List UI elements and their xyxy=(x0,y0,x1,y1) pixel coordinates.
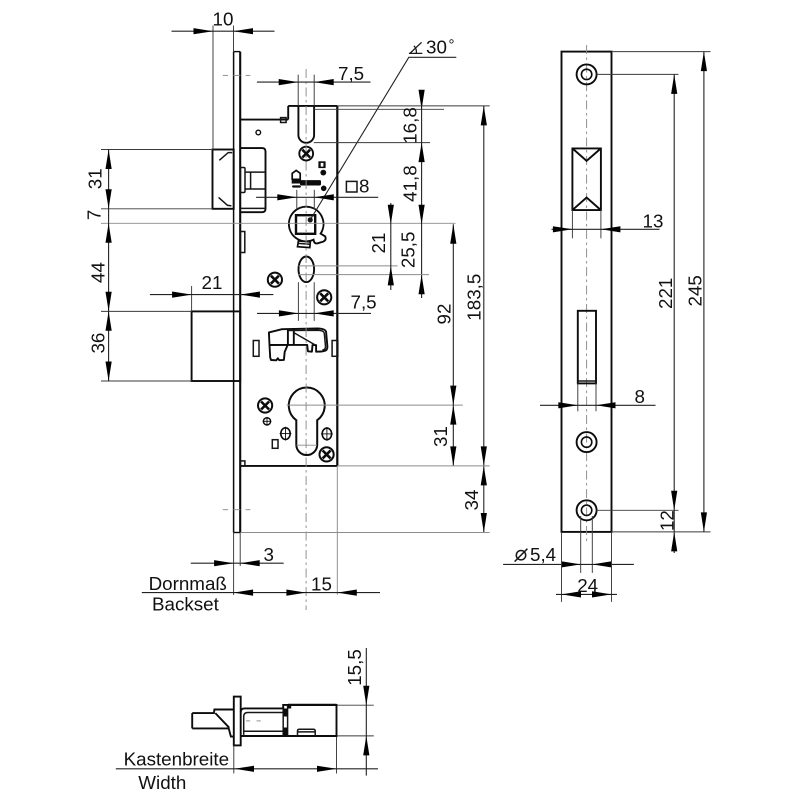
middle countersunk screw hole xyxy=(577,432,597,452)
svg-text:15: 15 xyxy=(311,573,332,594)
svg-text:°: ° xyxy=(449,37,455,54)
follower horizontal centerline xyxy=(101,222,456,224)
svg-text:31: 31 xyxy=(430,426,451,447)
svg-text:5,4: 5,4 xyxy=(530,544,556,565)
slot in case left wall xyxy=(240,232,244,253)
small clip on case bottom (top view) xyxy=(298,729,316,736)
svg-text:Kastenbreite: Kastenbreite xyxy=(124,749,229,770)
dimension 221 (screw distance) xyxy=(597,74,679,553)
latch bolt top view with bevel xyxy=(192,710,234,737)
svg-text:44: 44 xyxy=(87,262,108,283)
dimension 21 (deadbolt throw, left) xyxy=(150,272,274,311)
small ring detail left of channel xyxy=(256,130,261,135)
euro profile cylinder hole xyxy=(289,388,325,456)
svg-text:41,8: 41,8 xyxy=(400,165,421,202)
oval cross hole left of cylinder xyxy=(280,427,292,441)
spring stop pin (mushroom shape) xyxy=(292,170,301,187)
small tab on case bottom-left edge xyxy=(240,461,245,466)
dimension 7,5 (oval width) xyxy=(257,282,377,321)
svg-text:21: 21 xyxy=(368,233,389,254)
svg-text:245: 245 xyxy=(685,275,706,306)
dimension 24 (faceplate width) xyxy=(556,532,617,602)
dimension 183,5 xyxy=(337,106,489,533)
lock case outline xyxy=(240,106,337,466)
dimension 3 (faceplate thickness) xyxy=(191,533,284,596)
svg-text:Dornmaß: Dornmaß xyxy=(149,573,227,594)
dimension 16,8 (right of case top) xyxy=(314,90,444,298)
svg-text:12: 12 xyxy=(657,510,678,531)
svg-text:34: 34 xyxy=(461,490,482,511)
svg-text:13: 13 xyxy=(643,210,664,231)
oval hole below follower xyxy=(299,257,315,283)
lower screw left (circle with cross) xyxy=(258,398,272,412)
latch bolt tail inside case xyxy=(240,148,265,212)
lower screw right (circle with cross) xyxy=(320,447,334,461)
svg-text:16,8: 16,8 xyxy=(400,107,421,144)
dimension 25,5 xyxy=(299,232,430,295)
top countersunk screw hole xyxy=(577,64,597,84)
fixing screw (circle with cross) below latch channel xyxy=(299,147,313,161)
svg-text:92: 92 xyxy=(433,304,454,325)
faceplate bar (edge-on) xyxy=(234,697,241,746)
svg-text:7: 7 xyxy=(84,210,105,220)
deadbolt slot in faceplate xyxy=(578,311,596,384)
svg-text:36: 36 xyxy=(87,333,108,354)
svg-text:183,5: 183,5 xyxy=(463,274,484,321)
small pin dot right of spring bar xyxy=(321,186,327,192)
svg-text:3: 3 xyxy=(264,544,274,565)
backset dimension with labels Dornmass / Backset and 15 xyxy=(142,466,380,615)
svg-text:31: 31 xyxy=(84,168,105,189)
angle callout 30 degrees with leader to spindle hole xyxy=(308,36,457,222)
dimension 245 (faceplate length) xyxy=(612,52,711,532)
square spindle hole 8mm xyxy=(296,215,315,234)
svg-text:Backset: Backset xyxy=(152,594,220,615)
svg-text:Width: Width xyxy=(138,772,186,793)
left dimension stack 31 / 7 / 44 / 36 xyxy=(84,150,213,382)
guide slot left of cam xyxy=(253,341,259,357)
divider with screw blocks xyxy=(283,705,291,736)
vertical centerline of lock (dash-dot) xyxy=(305,69,307,610)
dimension 34 (case bottom to faceplate bottom) xyxy=(240,466,489,533)
screw-hole centerline marks on faceplate (top) xyxy=(223,74,251,76)
chord line in cylinder slot xyxy=(297,444,318,446)
dimension diameter 5,4 (screw hole) xyxy=(503,516,634,573)
svg-text:8: 8 xyxy=(635,386,645,407)
svg-text:10: 10 xyxy=(213,9,234,30)
svg-text:15,5: 15,5 xyxy=(344,649,365,686)
label square 8 with dimension of spindle square xyxy=(256,176,378,210)
Kastenbreite / Width dimension xyxy=(116,737,378,793)
svg-text:25,5: 25,5 xyxy=(398,232,419,269)
short centerline dash in top view xyxy=(246,720,250,722)
dimension 21 (right, follower to oval) xyxy=(299,203,398,290)
latch opening with guide prongs xyxy=(572,148,601,210)
inner cover plate with rounded corner xyxy=(244,713,284,735)
dimension 92 xyxy=(433,224,456,405)
lock case top view outline xyxy=(241,705,337,736)
dimension 41,8 xyxy=(400,165,425,224)
svg-text:8: 8 xyxy=(359,176,369,197)
svg-text:221: 221 xyxy=(655,278,676,309)
bottom countersunk screw hole xyxy=(577,500,597,520)
follower (handle nut) circle with cam bump lower right xyxy=(289,207,326,244)
dimension 10 (top left) xyxy=(172,9,275,150)
svg-text:7,5: 7,5 xyxy=(351,292,377,313)
deadbolt drive cam (crown shaped part inside case) xyxy=(269,328,328,360)
oval cross hole right of cylinder xyxy=(321,427,333,441)
faceplate centerline xyxy=(586,45,588,541)
dimension 15,5 (case height, top view) xyxy=(338,648,374,776)
middle screw right (circle with cross) xyxy=(317,290,331,304)
deadbolt head (protruding left of faceplate) xyxy=(192,311,241,381)
dimension 7,5 (top) xyxy=(257,63,371,106)
small rectangular hole below left oval xyxy=(272,440,278,449)
latch bolt head (protruding left of faceplate) xyxy=(213,150,234,209)
faceplate side view (left edge) xyxy=(234,52,241,533)
guide slot on case right wall xyxy=(332,341,338,357)
svg-text:7,5: 7,5 xyxy=(338,63,364,84)
dimension 8 (deadbolt slot width) xyxy=(540,383,656,411)
svg-text:30: 30 xyxy=(426,36,447,57)
small tab on case top-left edge xyxy=(281,118,287,123)
small cross-hole below lower-left screw xyxy=(263,417,272,426)
small pin dot below square xyxy=(320,170,326,176)
dimension 31 (cylinder to case bottom) xyxy=(337,405,489,466)
cylinder horizontal centerline xyxy=(287,404,463,406)
dimension 13 (latch opening width) xyxy=(552,210,664,238)
screw-hole centerline marks on faceplate (bottom) xyxy=(223,509,251,511)
spring bar (solid black) xyxy=(300,180,321,185)
svg-text:24: 24 xyxy=(577,575,598,596)
svg-text:21: 21 xyxy=(202,272,223,293)
middle screw left (circle with cross) xyxy=(268,273,282,287)
faceplate outline xyxy=(562,52,612,532)
latch guide channel at case top xyxy=(298,106,314,143)
small square with slot detail xyxy=(318,161,325,168)
follower bottom tab xyxy=(298,241,311,248)
dimension 12 (bottom screw to end) xyxy=(657,510,678,551)
